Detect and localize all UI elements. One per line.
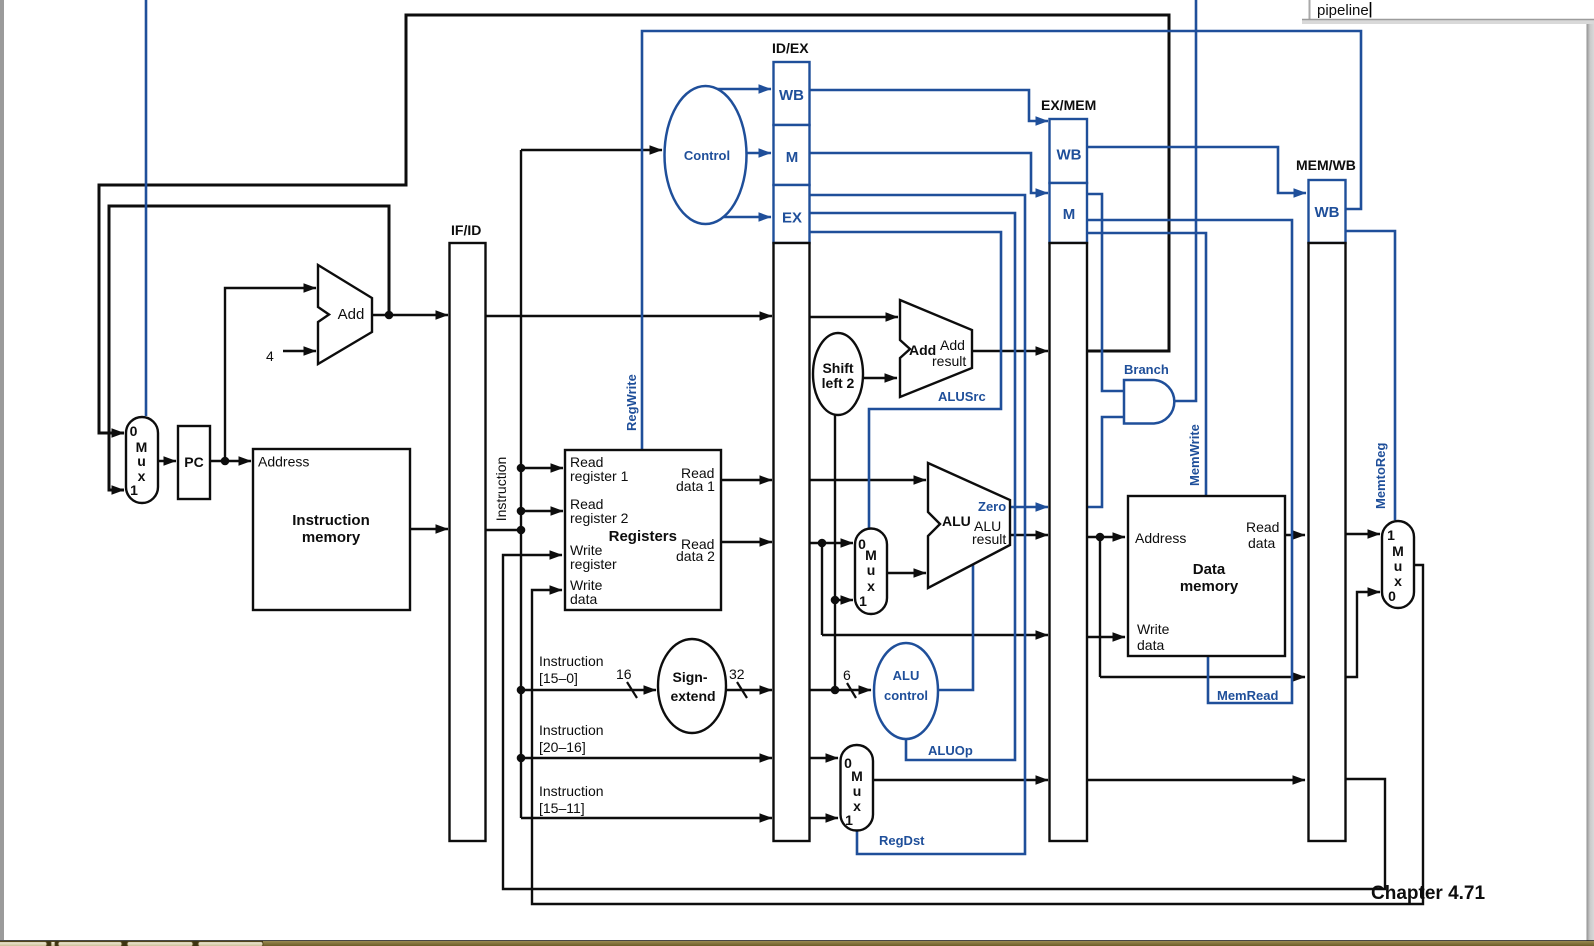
node instruction bus IF/ID tap bbox=[517, 526, 526, 535]
BLACK WIRES bbox=[99, 15, 1423, 904]
wire Shift left 2 output to branch Add bbox=[861, 377, 897, 379]
pipeline register MEM/WB bbox=[1309, 243, 1346, 841]
node instruction bus 20-16 bbox=[517, 754, 526, 763]
wire PC+4 ID/EX to branch Add top input bbox=[810, 316, 899, 318]
wire ALU result bypass to MEM/WB bbox=[1100, 676, 1305, 678]
wire Control to ID/EX M bbox=[745, 152, 771, 155]
node immediate to mux junction bbox=[831, 596, 840, 605]
wire instruction tap from IF/ID bbox=[486, 529, 522, 531]
wire ALU result to EX/MEM bbox=[1010, 534, 1048, 536]
wire Zero flag EX/MEM to AND gate bbox=[1087, 417, 1124, 507]
svg-text:u: u bbox=[853, 783, 862, 799]
svg-text:x: x bbox=[138, 468, 146, 484]
svg-text:M: M bbox=[851, 768, 863, 784]
node instruction bus read register 2 bbox=[517, 507, 526, 516]
svg-text:6: 6 bbox=[843, 667, 851, 683]
svg-text:x: x bbox=[853, 798, 861, 814]
wire ALUSrc mux output to ALU bbox=[887, 572, 926, 574]
window right scrollbar edge bbox=[1587, 24, 1594, 941]
oval Control bbox=[665, 86, 747, 224]
svg-text:Instruction: Instruction bbox=[493, 457, 509, 522]
svg-text:1: 1 bbox=[845, 812, 853, 828]
svg-text:EX: EX bbox=[782, 210, 802, 227]
block Instruction memory bbox=[253, 449, 410, 610]
svg-text:register: register bbox=[570, 556, 617, 572]
svg-text:RegDst: RegDst bbox=[879, 833, 925, 848]
svg-text:1: 1 bbox=[859, 593, 867, 609]
node PC output junction bbox=[221, 457, 230, 466]
svg-text:extend: extend bbox=[670, 688, 715, 704]
mux ALUSrc labels bbox=[858, 536, 877, 609]
pipeline register MEM/WB control cell WB bbox=[1309, 180, 1346, 243]
wire store data down bbox=[821, 543, 823, 635]
wire WB control EX/MEM to MEM/WB bbox=[1087, 147, 1306, 193]
wire Sign-extend output to ID/EX bbox=[726, 689, 772, 691]
wire Instruction 15-11 ID/EX to RegDst mux input 1 bbox=[810, 817, 839, 819]
slash 6 bits bbox=[847, 683, 856, 698]
BLUE WIRES bbox=[146, 0, 1395, 854]
wire write register number EX/MEM to MEM/WB bbox=[1087, 779, 1305, 781]
mux RegDst bbox=[841, 745, 874, 831]
wire Add output to IF/ID bbox=[372, 314, 448, 316]
svg-text:M: M bbox=[1392, 543, 1404, 559]
wire Read data 2 to ID/EX bbox=[721, 541, 772, 543]
svg-text:MemWrite: MemWrite bbox=[1187, 424, 1202, 486]
svg-text:M: M bbox=[1063, 206, 1076, 223]
svg-text:1: 1 bbox=[130, 482, 138, 498]
pipeline register EX/MEM control cells WB M bbox=[1050, 119, 1088, 243]
wire Read data 1 to ID/EX bbox=[721, 479, 772, 481]
svg-text:[15–0]: [15–0] bbox=[539, 670, 578, 686]
wire M control ID/EX to EX/MEM bbox=[810, 153, 1049, 193]
gate AND branch bbox=[1124, 380, 1174, 424]
pipeline register IF/ID bbox=[450, 243, 486, 841]
wire ALUSrc control to mux select bbox=[810, 232, 1002, 528]
block Data memory bbox=[1128, 496, 1285, 656]
svg-text:memory: memory bbox=[1180, 578, 1239, 595]
svg-text:Registers: Registers bbox=[609, 528, 677, 545]
svg-text:memory: memory bbox=[302, 529, 361, 546]
svg-text:register 1: register 1 bbox=[570, 468, 629, 484]
mux MemtoReg bbox=[1382, 521, 1414, 608]
register PC bbox=[178, 426, 210, 499]
wire Instruction memory output to IF/ID bbox=[410, 528, 448, 530]
wire PC output up to Add top input bbox=[225, 288, 316, 461]
svg-text:left 2: left 2 bbox=[822, 375, 855, 391]
wire Instruction 20-16 ID/EX to RegDst mux input 0 bbox=[810, 757, 839, 759]
slash 32 bits bbox=[737, 682, 747, 698]
svg-text:data: data bbox=[1137, 637, 1164, 653]
mux MemtoReg labels bbox=[1387, 527, 1404, 604]
adder Add (PC increment) bbox=[318, 265, 372, 364]
svg-text:MEM/WB: MEM/WB bbox=[1296, 157, 1356, 173]
svg-text:1: 1 bbox=[1387, 527, 1395, 543]
search box bbox=[1302, 0, 1594, 24]
wire sign-extended ID/EX to ALU control bbox=[810, 689, 872, 691]
wire write-back data loop to Registers Write data bbox=[532, 565, 1423, 904]
wire MemtoReg control to mux select bbox=[1346, 231, 1396, 520]
svg-text:Shift: Shift bbox=[822, 360, 853, 376]
wire MemWrite control to Data memory bbox=[1087, 233, 1206, 495]
svg-text:register 2: register 2 bbox=[570, 510, 629, 526]
wire MemRead control to Data memory bbox=[1087, 220, 1292, 703]
wire branch-target loop EX/MEM to PC mux input 0 bbox=[99, 15, 1169, 433]
svg-text:M: M bbox=[865, 547, 877, 563]
taskbar bbox=[0, 940, 1594, 946]
svg-text:ID/EX: ID/EX bbox=[772, 40, 809, 56]
wire ALU control output to ALU bbox=[937, 562, 973, 690]
svg-text:control: control bbox=[884, 688, 928, 703]
wire memory Read data to MEM/WB bbox=[1285, 534, 1305, 536]
pipeline register ID/EX bbox=[774, 243, 810, 841]
svg-text:Address: Address bbox=[1135, 530, 1186, 546]
wire Control to ID/EX EX bbox=[716, 216, 771, 219]
svg-text:Address: Address bbox=[258, 454, 309, 470]
svg-text:data 1: data 1 bbox=[676, 478, 715, 494]
oval ALU control bbox=[874, 643, 938, 739]
svg-text:ALUOp: ALUOp bbox=[928, 743, 973, 758]
wire instruction to Control bbox=[521, 149, 662, 151]
svg-text:pipeline: pipeline bbox=[1317, 2, 1369, 19]
pipeline register EX/MEM bbox=[1050, 243, 1088, 841]
node read data 2 store junction bbox=[818, 539, 827, 548]
svg-text:Read: Read bbox=[1246, 519, 1279, 535]
wire RegWrite MEM/WB to Registers bbox=[642, 31, 1361, 449]
wire PC+4 IF/ID to ID/EX bbox=[486, 315, 773, 317]
svg-text:result: result bbox=[972, 531, 1006, 547]
node Add output junction bbox=[385, 311, 394, 320]
node instruction bus 15-0 bbox=[517, 686, 526, 695]
svg-text:x: x bbox=[1394, 573, 1402, 589]
svg-text:Add: Add bbox=[338, 306, 365, 323]
mux RegDst labels bbox=[844, 755, 863, 828]
mux PC source bbox=[126, 417, 158, 503]
window left edge strip bbox=[0, 0, 4, 940]
svg-text:Chapter 4.71: Chapter 4.71 bbox=[1371, 883, 1485, 904]
wire to Read register 2 bbox=[521, 510, 563, 512]
wire store data to EX/MEM bbox=[822, 634, 1048, 636]
wire PC mux output to PC bbox=[158, 460, 176, 462]
wire vertical to Shift left 2 bbox=[834, 415, 836, 690]
svg-text:ALU: ALU bbox=[942, 513, 971, 529]
node instruction bus read register 1 bbox=[517, 464, 526, 473]
wire ALU result EX/MEM to Data memory Address bbox=[1087, 536, 1125, 538]
svg-text:MemtoReg: MemtoReg bbox=[1373, 442, 1388, 509]
wire constant 4 into Add bbox=[283, 350, 316, 352]
wire WB control ID/EX to EX/MEM bbox=[810, 90, 1049, 121]
ALU bbox=[928, 463, 1010, 588]
svg-text:ALUSrc: ALUSrc bbox=[938, 389, 986, 404]
svg-text:WB: WB bbox=[1057, 147, 1082, 164]
svg-text:x: x bbox=[867, 578, 875, 594]
svg-text:ALU: ALU bbox=[893, 668, 920, 683]
svg-text:0: 0 bbox=[130, 423, 138, 439]
svg-text:Branch: Branch bbox=[1124, 362, 1169, 377]
svg-text:MemRead: MemRead bbox=[1217, 688, 1278, 703]
svg-text:Zero: Zero bbox=[978, 499, 1006, 514]
wire RegDst control to mux select bbox=[810, 195, 1026, 854]
wire PC output to Instruction memory Address bbox=[210, 460, 251, 462]
svg-text:[15–11]: [15–11] bbox=[539, 800, 585, 816]
text caret bbox=[1370, 2, 1372, 18]
svg-text:u: u bbox=[1394, 558, 1403, 574]
svg-text:Instruction: Instruction bbox=[539, 722, 604, 738]
svg-text:EX/MEM: EX/MEM bbox=[1041, 97, 1096, 113]
wire ALU result bypass down bbox=[1099, 537, 1101, 677]
svg-text:Instruction: Instruction bbox=[292, 512, 370, 529]
wire to ALUSrc mux input 1 bbox=[835, 599, 853, 601]
svg-text:16: 16 bbox=[616, 666, 632, 682]
wire Instruction 15-0 to Sign-extend bbox=[521, 689, 656, 691]
pipeline register ID/EX control cells WB M EX bbox=[774, 62, 810, 243]
svg-text:data: data bbox=[1248, 535, 1275, 551]
svg-text:4: 4 bbox=[266, 348, 274, 364]
wire PC+4 loop Add output to PC mux input 1 bbox=[109, 206, 389, 490]
adder Add (branch target) bbox=[900, 300, 972, 397]
svg-text:WB: WB bbox=[779, 87, 804, 104]
node immediate to ALU control junction bbox=[831, 686, 840, 695]
svg-text:Control: Control bbox=[684, 148, 730, 163]
wire AND gate output PCSrc up bbox=[1174, 0, 1196, 401]
svg-text:M: M bbox=[786, 149, 799, 166]
node ALU result address junction bbox=[1096, 533, 1105, 542]
svg-text:0: 0 bbox=[1388, 588, 1396, 604]
wire Read data 2 ID/EX to ALUSrc mux input 0 bbox=[810, 542, 854, 544]
wire RegDst mux output to EX/MEM bbox=[873, 779, 1048, 781]
svg-text:data: data bbox=[570, 591, 597, 607]
wire Read data 1 ID/EX to ALU bbox=[810, 479, 927, 481]
block Registers bbox=[565, 450, 721, 610]
wire ALUOp control to ALU control bbox=[810, 213, 1016, 760]
wire PCSrc control down to PC mux select bbox=[145, 0, 148, 416]
svg-text:[20–16]: [20–16] bbox=[539, 739, 586, 755]
oval Sign-extend bbox=[658, 639, 726, 733]
oval Shift left 2 bbox=[813, 333, 863, 415]
wire to Read register 1 bbox=[521, 467, 563, 469]
wire Read data MEM/WB to MemtoReg mux input 1 bbox=[1346, 533, 1381, 535]
svg-text:Add: Add bbox=[940, 337, 965, 353]
svg-text:WB: WB bbox=[1315, 204, 1340, 221]
wire Instruction 20-16 to ID/EX bbox=[521, 757, 772, 759]
svg-text:32: 32 bbox=[729, 666, 745, 682]
wire write register number loop to Registers Write register bbox=[503, 555, 1385, 889]
mux ALUSrc bbox=[855, 529, 887, 615]
wire instruction vertical bus bbox=[520, 150, 522, 818]
svg-text:Sign-: Sign- bbox=[673, 669, 708, 685]
wire branch Add result to EX/MEM bbox=[972, 350, 1048, 352]
wire Control to ID/EX WB bbox=[716, 88, 771, 91]
mux PC source labels bbox=[130, 423, 148, 498]
svg-text:RegWrite: RegWrite bbox=[624, 374, 639, 431]
svg-text:u: u bbox=[137, 453, 146, 469]
svg-text:PC: PC bbox=[184, 454, 203, 470]
slash 16 bits bbox=[627, 682, 637, 698]
svg-text:data 2: data 2 bbox=[676, 548, 715, 564]
svg-text:Instruction: Instruction bbox=[539, 653, 604, 669]
svg-text:result: result bbox=[932, 353, 966, 369]
wire Instruction 15-11 to ID/EX bbox=[521, 817, 772, 819]
wire Zero flag to EX/MEM bbox=[1010, 506, 1048, 509]
svg-text:u: u bbox=[867, 562, 876, 578]
wire store data EX/MEM to Data memory Write data bbox=[1087, 636, 1125, 638]
svg-text:IF/ID: IF/ID bbox=[451, 222, 481, 238]
svg-text:Data: Data bbox=[1193, 561, 1226, 578]
wire ALU result MEM/WB to MemtoReg mux input 0 bbox=[1346, 592, 1381, 677]
svg-text:Write: Write bbox=[1137, 621, 1170, 637]
svg-text:Instruction: Instruction bbox=[539, 783, 604, 799]
wire Branch control to AND gate bbox=[1087, 194, 1124, 391]
